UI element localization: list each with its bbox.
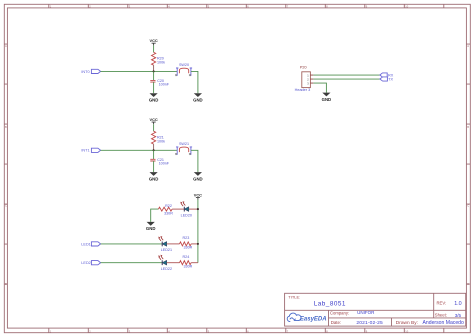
svg-text:VCC: VCC xyxy=(194,192,202,197)
svg-text:REV:: REV: xyxy=(437,301,447,306)
svg-text:R22: R22 xyxy=(165,204,172,208)
svg-text:Header 3: Header 3 xyxy=(295,88,311,92)
svg-text:GND: GND xyxy=(193,97,203,102)
svg-text:A: A xyxy=(5,44,7,48)
svg-text:100nF: 100nF xyxy=(159,161,170,165)
svg-text:LED2: LED2 xyxy=(81,261,91,265)
svg-text:100nF: 100nF xyxy=(159,83,170,87)
svg-text:LED1: LED1 xyxy=(81,242,91,246)
svg-text:EasyEDA: EasyEDA xyxy=(300,317,327,323)
svg-text:Date:: Date: xyxy=(331,320,342,325)
svg-text:GND: GND xyxy=(193,176,203,181)
svg-text:C: C xyxy=(5,203,7,207)
svg-text:Sheet:: Sheet: xyxy=(435,313,447,318)
svg-text:330R: 330R xyxy=(183,246,192,250)
svg-text:LED21: LED21 xyxy=(161,248,172,252)
svg-text:B: B xyxy=(5,125,7,129)
svg-text:A: A xyxy=(467,44,469,48)
svg-text:Company:: Company: xyxy=(330,310,349,315)
svg-text:D: D xyxy=(5,282,7,286)
svg-text:GND: GND xyxy=(322,97,332,102)
svg-text:SW21: SW21 xyxy=(179,142,189,146)
svg-text:2021-02-25: 2021-02-25 xyxy=(356,320,383,326)
svg-text:UNIFOR: UNIFOR xyxy=(357,310,375,315)
svg-text:B: B xyxy=(467,125,469,129)
svg-text:TITLE:: TITLE: xyxy=(288,295,300,300)
svg-text:3/5: 3/5 xyxy=(455,313,462,318)
svg-text:100k: 100k xyxy=(157,140,165,144)
svg-text:Lab_8051: Lab_8051 xyxy=(314,301,346,308)
svg-text:R24: R24 xyxy=(183,255,190,259)
svg-text:SW20: SW20 xyxy=(179,63,189,67)
svg-text:INT1: INT1 xyxy=(81,149,89,153)
svg-text:GND: GND xyxy=(149,176,159,181)
svg-text:D: D xyxy=(467,282,469,286)
svg-text:LED20: LED20 xyxy=(181,213,192,217)
svg-text:330R: 330R xyxy=(183,265,192,269)
svg-text:Drawn By:: Drawn By: xyxy=(396,320,418,326)
svg-text:Anderson Macedo: Anderson Macedo xyxy=(423,320,465,326)
svg-text:VCC: VCC xyxy=(149,117,157,122)
svg-text:VCC: VCC xyxy=(149,38,157,43)
svg-text:INT0: INT0 xyxy=(81,70,89,74)
svg-text:TX: TX xyxy=(388,77,393,81)
svg-text:100k: 100k xyxy=(157,61,165,65)
svg-text:GND: GND xyxy=(149,97,159,102)
svg-text:P20: P20 xyxy=(300,65,307,69)
svg-text:R23: R23 xyxy=(183,236,190,240)
svg-text:330R: 330R xyxy=(164,211,173,215)
svg-text:1.0: 1.0 xyxy=(454,301,462,307)
svg-text:C: C xyxy=(467,203,469,207)
svg-text:GND: GND xyxy=(146,226,156,231)
svg-text:LED22: LED22 xyxy=(161,267,172,271)
